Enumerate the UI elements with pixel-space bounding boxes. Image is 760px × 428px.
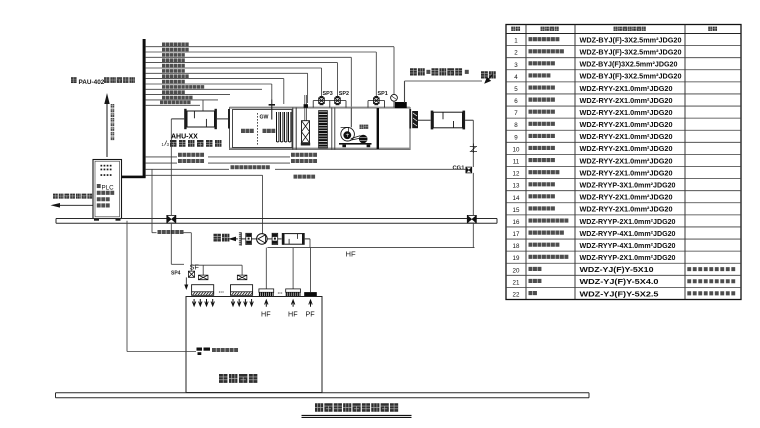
svg-text:8: 8 — [514, 122, 518, 129]
AHU section wall 3-4 (thick) — [377, 108, 379, 149]
fresh air duct from top right — [405, 81, 483, 103]
lower floor slab (double line) — [56, 393, 590, 398]
label: branch signal 2 — [162, 48, 189, 52]
supply air arrows under G2 — [231, 299, 253, 306]
label: fresh air (xin feng) at arrow — [481, 71, 496, 78]
table row 15 — [513, 205, 673, 214]
label: branch signal 1 — [162, 43, 189, 47]
svg-text:WDZ-RYY-2X1.0mm²JDG20: WDZ-RYY-2X1.0mm²JDG20 — [580, 96, 673, 105]
svg-text:SP2: SP2 — [339, 91, 349, 97]
supply diffuser G2 — [231, 285, 253, 296]
svg-text:3: 3 — [514, 62, 518, 69]
label: branch signal 11 — [162, 96, 193, 100]
label: branch signal 4 — [162, 58, 185, 62]
table row 13 — [513, 180, 676, 189]
pressure sensor SP2 — [329, 91, 349, 108]
label: supply control signal row — [158, 230, 184, 234]
diffuser damper valve DV1 — [198, 275, 208, 280]
svg-text:SP1: SP1 — [378, 91, 388, 97]
svg-text:...: ... — [278, 290, 283, 296]
svg-text:SP4: SP4 — [171, 270, 181, 276]
flexible connector (comb) — [239, 232, 246, 245]
wire: bus branch signal line 1 — [146, 47, 394, 95]
wire: bus branch signal line 2 — [146, 52, 377, 98]
svg-text:CG1: CG1 — [453, 165, 466, 171]
wire: bus branch signal line 4 — [146, 63, 338, 98]
exhaust damper V1 — [246, 233, 257, 244]
flexible joint symbol on duct — [470, 144, 477, 154]
steam humidifier X-column — [301, 121, 310, 146]
return grille HF2 — [286, 248, 301, 297]
exhaust silencer S3 — [282, 233, 310, 245]
table row 4 — [514, 72, 681, 81]
label: branch signal 3 — [162, 53, 185, 57]
svg-text:2: 2 — [514, 50, 518, 57]
table row 3 — [514, 60, 677, 69]
wire: bus branch line 12 to inlet silencer — [146, 100, 203, 111]
exhaust fan M2 (circle with triangle) — [257, 234, 272, 245]
ellipsis between diffusers — [219, 288, 225, 295]
wire: bus branch signal line 5 — [146, 68, 322, 98]
label: connect to building equipment network (jie ru da lou she bei wang) — [53, 194, 92, 199]
svg-text:22: 22 — [513, 292, 520, 299]
label: HF on return rail — [346, 250, 356, 259]
wire: bus branch signal line 9 — [146, 88, 262, 90]
table row 2 — [514, 47, 681, 56]
wire: interlock arrow up to PAU-402 — [104, 93, 109, 157]
table row 6 — [514, 96, 672, 105]
ellipsis between grilles — [278, 290, 283, 296]
label: humidifier (jia shi qi) — [241, 129, 254, 133]
svg-text:WDZ-RYY-2X1.0mm²JDG20: WDZ-RYY-2X1.0mm²JDG20 — [580, 120, 673, 129]
wire: arrow to building network — [51, 203, 94, 208]
pressure gauge on AHU top — [391, 94, 398, 107]
supply fan M1 scroll — [341, 127, 362, 141]
svg-text:WDZ-RYYP-2X1.0mm²JDG20: WDZ-RYYP-2X1.0mm²JDG20 — [580, 253, 676, 262]
svg-text:WDZ-RYY-2X1.0mm²JDG20: WDZ-RYY-2X1.0mm²JDG20 — [580, 168, 673, 177]
svg-text:5: 5 — [514, 86, 518, 93]
arrow: exhaust direction — [228, 237, 238, 242]
arrow: fresh air entering — [484, 75, 492, 84]
svg-text:PAU-402: PAU-402 — [79, 79, 105, 86]
table row 9 — [514, 132, 672, 141]
slab damper on supply branch duct — [167, 215, 176, 223]
table row 12 — [513, 168, 673, 177]
table row 17 — [513, 229, 676, 238]
label: fresh-air unit interlock signal (vertical) — [111, 104, 115, 140]
pressure sensor SP3 — [313, 91, 333, 108]
table row 16 — [513, 217, 676, 226]
table row 7 — [514, 108, 672, 117]
signal bus (thick) from PLC — [121, 39, 146, 178]
label: branch signal 8 — [162, 80, 185, 84]
table row 14 — [513, 193, 673, 202]
label: HF grille 1 — [261, 310, 271, 319]
svg-text:12: 12 — [513, 171, 520, 178]
duct continues to slab damper — [472, 173, 474, 215]
wire: drop from return line to supply-control label — [152, 169, 157, 232]
svg-text:WDZ-YJ(F)Y-5X10: WDZ-YJ(F)Y-5X10 — [580, 265, 654, 274]
svg-text:17: 17 — [513, 231, 520, 238]
label: SF — [190, 263, 200, 272]
svg-text:SF: SF — [190, 263, 200, 272]
svg-text:WDZ-RYY-2X1.0mm²JDG20: WDZ-RYY-2X1.0mm²JDG20 — [580, 156, 673, 165]
label: HF grille 2 — [288, 310, 298, 319]
label: branch signal 10 — [162, 90, 185, 94]
sensor GW label — [260, 115, 269, 121]
label: fresh air (from fresh air unit) — [410, 68, 469, 75]
svg-text:WDZ-RYY-2X1.0mm²JDG20: WDZ-RYY-2X1.0mm²JDG20 — [580, 132, 673, 141]
svg-text:WDZ-RYYP-4X1.0mm²JDG20: WDZ-RYYP-4X1.0mm²JDG20 — [580, 229, 676, 238]
return grille HF1 — [259, 248, 274, 297]
AHU section wall 2-3 — [332, 108, 335, 150]
svg-text:10: 10 — [513, 146, 520, 153]
wire: to SF valve — [184, 233, 192, 271]
return rail duct below exhaust — [267, 223, 474, 248]
PLC terminal dots — [101, 165, 112, 176]
cable table frame — [506, 25, 741, 300]
wire: bus branch signal line 6 — [146, 73, 308, 103]
supply air arrows under G1 — [192, 299, 214, 306]
svg-text:9: 9 — [514, 134, 518, 141]
svg-text:WDZ-BYJ(F)-3X2.5mm²JDG20: WDZ-BYJ(F)-3X2.5mm²JDG20 — [580, 72, 682, 81]
supply diffuser G1 — [192, 285, 214, 296]
upper floor slab (double line) — [56, 219, 497, 224]
svg-text:WDZ-RYY-2X1.0mm²JDG20: WDZ-RYY-2X1.0mm²JDG20 — [580, 144, 673, 153]
symbol: one-third mark — [162, 141, 170, 148]
svg-text:WDZ-RYY-2X1.0mm²JDG20: WDZ-RYY-2X1.0mm²JDG20 — [580, 193, 673, 202]
wire: bus branch signal line 8 — [146, 84, 272, 100]
label: clean area (jie jing qu yu) — [219, 374, 257, 383]
AHU section 1 humidifier+heater chamber — [233, 110, 293, 148]
svg-text:WDZ-BYJ(F)-3X2.5mm²JDG20: WDZ-BYJ(F)-3X2.5mm²JDG20 — [580, 47, 682, 56]
label: bottom branch labels near AHU — [160, 101, 191, 105]
label: SP4 — [171, 270, 181, 276]
svg-text:13: 13 — [513, 183, 520, 190]
slab damper on return duct — [467, 215, 476, 223]
svg-text:WDZ-BYJ(F)3X2.5mm²JDG20: WDZ-BYJ(F)3X2.5mm²JDG20 — [580, 60, 678, 69]
sensor GW stem with cross — [269, 100, 275, 120]
svg-text:1: 1 — [514, 38, 518, 45]
wire: fire linkage signal with labels — [146, 159, 317, 163]
supply duct down from silencer — [472, 120, 474, 167]
SP4 sensor bracket — [184, 277, 188, 290]
label: exhaust fan control (pai feng ji kong zhi) — [294, 175, 316, 179]
label: exhaust air (pai feng) — [214, 234, 230, 242]
clean room boundary (jie jing qu yu) — [186, 297, 322, 393]
label: branch signal 6 — [162, 69, 185, 73]
wire: control panel drop from PLC — [127, 221, 196, 352]
svg-text:20: 20 — [513, 267, 520, 274]
valve SF (box with X) — [188, 271, 194, 277]
svg-text:WDZ-RYY-2X1.0mm²JDG20: WDZ-RYY-2X1.0mm²JDG20 — [580, 205, 673, 214]
svg-text:SP3: SP3 — [323, 91, 333, 97]
table row 18 — [513, 241, 676, 250]
PLC text: PLC control system (built-in VFD) — [97, 184, 114, 207]
table row 22 — [513, 289, 736, 298]
label: fan (feng ji) — [360, 125, 369, 129]
AHU outlet flange — [409, 109, 418, 129]
svg-text:7: 7 — [514, 110, 518, 117]
svg-text:WDZ-RYYP-4X1.0mm²JDG20: WDZ-RYYP-4X1.0mm²JDG20 — [580, 241, 676, 250]
svg-text:21: 21 — [513, 279, 520, 286]
wire: exhaust fan control line — [146, 175, 263, 233]
svg-text:16: 16 — [513, 219, 520, 226]
svg-text:11: 11 — [513, 159, 520, 166]
sensor CG1 label — [453, 165, 466, 171]
exhaust damper V2 — [272, 233, 282, 244]
svg-text:15: 15 — [513, 207, 520, 214]
svg-text:WDZ-YJ(F)Y-5X4.0: WDZ-YJ(F)Y-5X4.0 — [580, 277, 659, 286]
exhaust arrow PF — [309, 300, 312, 307]
svg-text:PF: PF — [306, 310, 316, 319]
wire: return air temp/humidity detect signal to CG1 — [146, 165, 466, 169]
svg-text:WDZ-BYJ(F)-3X2.5mm²JDG20: WDZ-BYJ(F)-3X2.5mm²JDG20 — [580, 35, 682, 44]
outlet silencer S1 (right) — [418, 111, 473, 130]
table row 1 — [514, 35, 681, 44]
label: branch signal 5 — [162, 64, 185, 68]
table row 20 — [513, 265, 736, 274]
svg-text:WDZ-YJ(F)Y-5X2.5: WDZ-YJ(F)Y-5X2.5 — [580, 289, 659, 298]
svg-text:14: 14 — [513, 195, 520, 202]
PLC controller U1 cabinet — [93, 160, 122, 221]
steam valve line with valve dot — [304, 95, 308, 121]
label: AHU-XX purification air handling unit — [170, 134, 221, 147]
svg-text:4: 4 — [514, 74, 518, 81]
diffuser damper valve DV2 — [237, 275, 247, 280]
svg-text:WDZ-RYYP-3X1.0mm²JDG20: WDZ-RYYP-3X1.0mm²JDG20 — [580, 180, 676, 189]
wire: bus branch signal line 3 — [146, 57, 352, 127]
svg-text:HF: HF — [346, 250, 356, 259]
AHU casing outer box — [228, 107, 410, 150]
table header: xu hao / hui lu ming cheng / xian lan ji chuan guan gui ge / bei zhu — [511, 27, 717, 31]
table row 21 — [513, 277, 736, 286]
svg-text:6: 6 — [514, 98, 518, 105]
duct: branch down from silencer inlet through slab — [171, 119, 184, 264]
table row 19 — [513, 253, 676, 262]
label: heater (jia re qi) — [263, 129, 276, 133]
table row 10 — [513, 144, 673, 153]
svg-text:HF: HF — [261, 310, 271, 319]
filter block F1 (hatched) — [318, 110, 328, 148]
wire: bus branch signal line 10 — [146, 94, 230, 96]
svg-text:WDZ-RYY-2X1.0mm²JDG20: WDZ-RYY-2X1.0mm²JDG20 — [580, 108, 673, 117]
AC control panel symbol — [197, 348, 211, 356]
label: branch signal 7 — [162, 74, 189, 78]
pressure sensor SP1 — [368, 91, 388, 108]
table row 8 — [514, 120, 672, 129]
svg-text:HF: HF — [288, 310, 298, 319]
return air arrow HF1 — [265, 300, 268, 307]
fan base — [339, 108, 372, 148]
svg-text:WDZ-RYYP-2X1.0mm²JDG20: WDZ-RYYP-2X1.0mm²JDG20 — [580, 217, 676, 226]
label: AC control panel (kong tiao kong zhi mian ban) — [212, 348, 238, 352]
wire: bus branch signal line 7 — [146, 79, 284, 104]
table row 11 — [513, 156, 673, 165]
svg-text:AHU-XX: AHU-XX — [171, 134, 198, 141]
table row 5 — [514, 84, 672, 93]
AHU section wall 1-2 — [293, 108, 296, 150]
fan motor M1 — [359, 135, 368, 144]
label: branch signal 9 — [162, 85, 204, 89]
svg-text:WDZ-RYY-2X1.0mm²JDG20: WDZ-RYY-2X1.0mm²JDG20 — [580, 84, 673, 93]
return air arrow HF2 — [291, 300, 294, 307]
svg-text:GW: GW — [260, 115, 269, 121]
heating coil U-tubes — [277, 112, 291, 142]
svg-text:18: 18 — [513, 243, 520, 250]
exhaust grille PF (solid) — [304, 248, 317, 297]
svg-text:19: 19 — [513, 255, 520, 262]
wire: bus branch signal line 11 — [146, 99, 218, 101]
svg-text:...: ... — [219, 288, 225, 295]
label: PF grille — [306, 310, 316, 319]
title: purification AC control schematic (jing hua kong tiao kong zhi yuan li tu) — [302, 403, 412, 417]
label: to PAU-402 unit controller (zhi PAU-402 ji zu kong zhi qi) — [71, 77, 135, 86]
fresh air inlet damper D1 on AHU top — [396, 103, 407, 108]
inlet silencer S2 (left) — [171, 109, 228, 129]
svg-text:PLC: PLC — [102, 185, 115, 192]
wire: freeze-protection signal with labels — [146, 153, 317, 157]
damper/sensor CG1 on duct — [466, 167, 472, 173]
wire: SF to diffuser valves — [192, 265, 243, 275]
